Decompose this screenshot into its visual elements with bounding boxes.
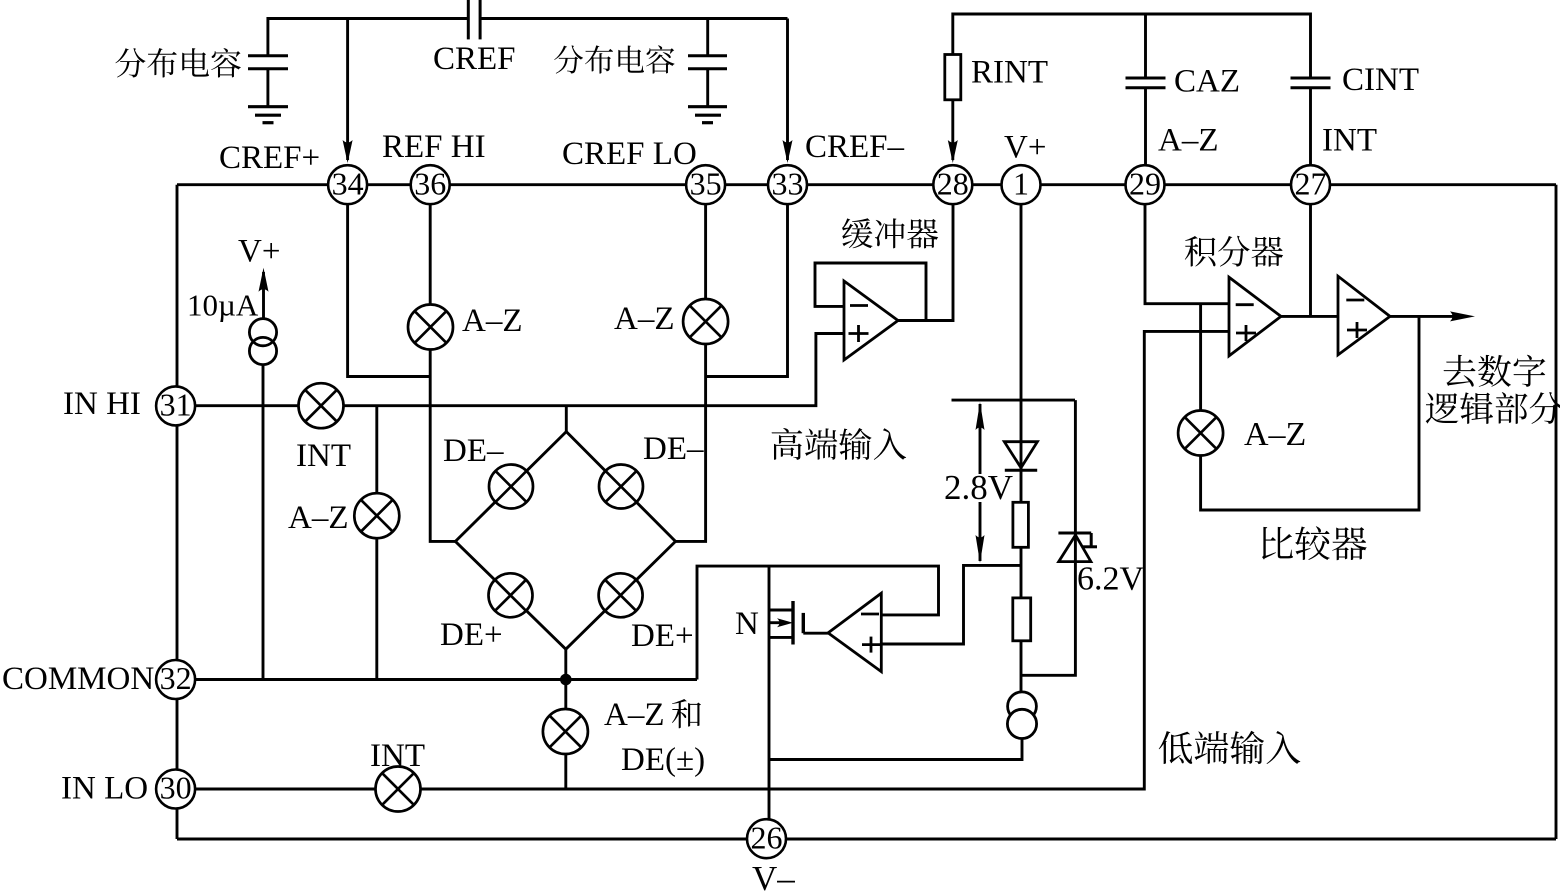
wire: pin 27 down to integrator output xyxy=(1309,205,1312,317)
wire: bridge bottom stem xyxy=(564,649,567,679)
svg-text:A–Z: A–Z xyxy=(604,697,665,733)
wire: pin 34 to REF HI line xyxy=(348,205,431,377)
wire: IN LO rail up to integrator + input xyxy=(196,331,1229,789)
N-driver - sign xyxy=(861,613,879,616)
label 分布电容 (left) xyxy=(115,48,145,77)
buffer + sign xyxy=(849,332,869,335)
label 低端输入 xyxy=(1159,731,1193,764)
pin 27 INT xyxy=(1291,165,1330,204)
comparator - sign xyxy=(1346,299,1364,302)
svg-text:A–Z: A–Z xyxy=(1158,123,1219,159)
svg-text:DE+: DE+ xyxy=(631,618,694,654)
pin 35 CREF LO xyxy=(686,165,725,204)
node: junction dot at bridge output xyxy=(560,674,572,686)
op-amp U1 buffer (triangle) xyxy=(844,281,898,360)
svg-text:32: 32 xyxy=(160,660,192,696)
svg-text:29: 29 xyxy=(1129,165,1161,201)
wire: COMMON box to N-driver - input xyxy=(697,566,939,679)
wire: buffer feedback loop xyxy=(815,263,926,321)
switch A-Z and DE(+-) xyxy=(543,709,588,754)
switch INT (IN HI) xyxy=(299,383,344,428)
svg-text:27: 27 xyxy=(1295,165,1327,201)
wire: integrator output to comparator xyxy=(1281,315,1338,318)
wire: bridge upper-right edge xyxy=(566,432,675,542)
svg-text:V–: V– xyxy=(752,859,795,895)
capacitor CINT (plates) xyxy=(1291,77,1331,80)
pin 33 CREF- xyxy=(768,165,807,204)
svg-text:28: 28 xyxy=(937,165,969,201)
svg-text:N: N xyxy=(735,606,759,642)
resistor R1 xyxy=(1013,502,1029,547)
wire: MOSFET drain/source line down to pin 26 xyxy=(768,566,771,819)
wire: bridge lower-left edge xyxy=(455,541,565,649)
capacitor CREF (plates) xyxy=(467,0,470,39)
wire: bridge top stem xyxy=(565,406,568,432)
svg-text:A–Z: A–Z xyxy=(288,500,349,536)
svg-text:INT: INT xyxy=(296,438,351,474)
wire: IN HI rail to buffer + input xyxy=(196,334,844,406)
wire: 10uA source down to COMMON xyxy=(262,365,265,680)
svg-text:A–Z: A–Z xyxy=(462,303,523,339)
pin 29 A-Z xyxy=(1126,165,1165,204)
buffer - sign xyxy=(850,304,868,307)
svg-text:INT: INT xyxy=(370,738,425,774)
resistor RINT xyxy=(945,55,961,100)
op-amp U2 N-driver (triangle) xyxy=(828,593,881,671)
wire with arrow: RINT into pin 28 xyxy=(951,100,954,160)
wire with arrow: comparator output to digital logic xyxy=(1390,315,1462,318)
pin 36 REF HI xyxy=(411,165,450,204)
capacitor CAZ (plates) xyxy=(1126,77,1166,80)
wire: left border xyxy=(176,185,179,839)
wire: zener branch xyxy=(1021,400,1075,675)
switch INT (IN LO) xyxy=(376,767,421,812)
op-amp U4 comparator (triangle) xyxy=(1338,276,1390,355)
pin 32 COMMON xyxy=(156,660,195,699)
svg-text:IN LO: IN LO xyxy=(61,771,148,807)
svg-text:36: 36 xyxy=(414,165,446,201)
op-amp U3 integrator (triangle) xyxy=(1229,277,1281,356)
label 分布电容 (right) xyxy=(554,45,583,73)
svg-text:A–Z: A–Z xyxy=(614,301,675,337)
svg-text:34: 34 xyxy=(332,165,364,201)
wire with arrow into pin 33 xyxy=(786,19,789,161)
wire: pin 36 down to deflection bridge left xyxy=(430,205,455,542)
wire: A-Z and DE switch branch xyxy=(564,680,567,790)
wire: R2 to current source xyxy=(1020,641,1023,692)
svg-text:2.8V: 2.8V xyxy=(944,468,1013,507)
svg-text:DE–: DE– xyxy=(643,431,704,467)
pin 28 RINT xyxy=(933,165,972,204)
wire: 2.8V top reference bar xyxy=(952,399,1076,402)
diode D1 xyxy=(1004,442,1037,468)
svg-text:V+: V+ xyxy=(1004,130,1046,166)
resistor R2 xyxy=(1013,598,1031,641)
svg-text:CREF–: CREF– xyxy=(805,129,905,165)
wire: R1 through 2.8V node to R2 xyxy=(1020,547,1023,598)
wire: diode to R1 xyxy=(1020,471,1023,503)
svg-text:30: 30 xyxy=(160,770,192,806)
svg-text:CREF: CREF xyxy=(433,41,516,77)
integrator + sign xyxy=(1236,332,1256,335)
wire: stub to right stray capacitance xyxy=(706,19,709,56)
svg-text:DE–: DE– xyxy=(443,433,504,469)
svg-text:A–Z: A–Z xyxy=(1244,416,1306,453)
current source 10uA (circles) xyxy=(249,319,276,346)
svg-text:IN HI: IN HI xyxy=(63,386,141,422)
transistor N (channel bar) xyxy=(791,601,794,645)
ground (right stray cap) xyxy=(688,105,727,108)
switch DE+ (lower left) xyxy=(489,573,533,617)
label 逻辑部分 xyxy=(1426,393,1459,424)
capacitor: left stray capacitance 分布电容 xyxy=(248,54,288,57)
wire: bridge upper-left edge xyxy=(455,432,566,542)
svg-text:6.2V: 6.2V xyxy=(1077,561,1145,598)
dimension: 2.8V arrows xyxy=(979,404,982,474)
svg-text:CINT: CINT xyxy=(1342,62,1419,98)
svg-text:26: 26 xyxy=(751,819,783,855)
label 缓冲器 xyxy=(842,218,873,248)
svg-text:10µA: 10µA xyxy=(187,288,259,323)
switch A-Z (REF HI) xyxy=(408,305,453,350)
label 比较器 xyxy=(1262,527,1293,560)
wire: A-Z branch IN HI to COMMON xyxy=(375,406,378,680)
svg-text:31: 31 xyxy=(160,386,192,422)
wire: bridge lower-right edge xyxy=(566,541,676,649)
wire: V+ top bus (RINT to CINT) xyxy=(953,14,1311,78)
wire: pin 1 down to diode xyxy=(1020,205,1023,471)
ground (left stray cap) xyxy=(248,105,288,108)
wire: top reference bus (CREF+ to CREF-) xyxy=(268,19,788,56)
label 高端输入 xyxy=(772,428,803,460)
wire: pin 33 jog to CREF LO line xyxy=(706,205,788,377)
integrator - sign xyxy=(1236,303,1254,306)
transistor N (MOSFET stubs) xyxy=(769,609,793,612)
svg-text:RINT: RINT xyxy=(971,55,1048,91)
wire: CAZ branch xyxy=(1144,14,1147,165)
pin 1 V+ xyxy=(1002,165,1041,204)
N-driver + sign xyxy=(862,643,880,646)
switch A-Z (CREF LO) xyxy=(683,299,728,344)
svg-text:V+: V+ xyxy=(238,234,280,270)
svg-text:35: 35 xyxy=(690,165,722,201)
pin 31 IN HI xyxy=(156,386,195,425)
capacitor: right stray capacitance 分布电容 xyxy=(688,54,727,57)
pin 30 IN LO xyxy=(156,770,195,809)
transistor N (gate bar) xyxy=(802,613,805,633)
svg-text:CAZ: CAZ xyxy=(1174,64,1240,100)
svg-text:INT: INT xyxy=(1322,123,1377,159)
wire: bottom V- rail xyxy=(177,838,1556,841)
pin 26 V- xyxy=(747,819,786,858)
wire: pin 35 down to deflection bridge right xyxy=(676,205,706,542)
switch DE- (upper right) xyxy=(599,465,643,509)
svg-text:REF HI: REF HI xyxy=(382,129,486,165)
wire: gate lead xyxy=(803,632,828,635)
svg-text:DE(±): DE(±) xyxy=(621,742,705,778)
svg-text:33: 33 xyxy=(772,165,804,201)
wire: current source to V- line xyxy=(769,738,1022,759)
wire with arrow into pin 34 xyxy=(346,19,349,161)
switch DE- (upper left) xyxy=(489,465,533,509)
wire: right border xyxy=(1555,185,1558,839)
current source (bias, circles) xyxy=(1008,692,1037,721)
zener diode 6.2V xyxy=(1059,535,1091,562)
svg-text:CREF LO: CREF LO xyxy=(562,136,697,172)
switch A-Z (comparator) xyxy=(1178,411,1223,456)
wire: pin 29 down to integrator - input xyxy=(1145,205,1229,304)
switch A-Z (IN HI) xyxy=(354,493,399,538)
label 去数字 xyxy=(1444,355,1476,387)
wire: N-driver + input to 2.8V node xyxy=(881,565,1021,644)
switch DE+ (lower right) xyxy=(599,573,643,617)
label 积分器 xyxy=(1185,236,1216,267)
wire: buffer output to pin 28 xyxy=(898,205,953,321)
svg-text:DE+: DE+ xyxy=(440,617,503,653)
wire: COMMON rail xyxy=(196,678,697,681)
wire: A-Z comparator branch xyxy=(1201,304,1419,510)
pin 34 CREF+ xyxy=(328,165,367,204)
svg-text:1: 1 xyxy=(1013,165,1029,201)
wire with arrow: 10uA to V+ xyxy=(262,272,265,320)
comparator + sign xyxy=(1347,329,1367,332)
svg-text:COMMON: COMMON xyxy=(2,661,154,697)
wire: CINT to pin 27 xyxy=(1309,88,1312,165)
wire: top pin rail xyxy=(177,183,1556,186)
svg-text:CREF+: CREF+ xyxy=(219,140,320,176)
